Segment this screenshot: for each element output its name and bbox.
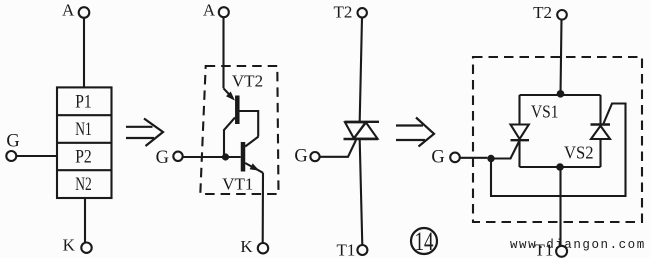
- bridge top wire: [520, 94, 601, 96]
- wire T2 down to bridge: [561, 20, 562, 95]
- terminal K (stack): [63, 236, 92, 255]
- svg-text:A: A: [62, 1, 75, 20]
- svg-text:T2: T2: [334, 3, 353, 22]
- thyristor VS2 (points up): [591, 95, 611, 167]
- svg-text:VS1: VS1: [531, 102, 559, 122]
- wire A to stack: [83, 18, 85, 88]
- wire gate node to VS1 gate: [491, 142, 519, 159]
- wire G to base node: [183, 156, 241, 158]
- svg-text:P2: P2: [75, 147, 92, 168]
- svg-text:A: A: [203, 1, 216, 20]
- terminal A (transistor model): [203, 1, 229, 20]
- svg-text:G: G: [156, 148, 169, 168]
- svg-text:G: G: [6, 131, 19, 151]
- figure number 14 (circled): [411, 226, 437, 256]
- wire bridge to T1: [559, 167, 561, 246]
- svg-text:N2: N2: [75, 174, 92, 195]
- transistor VT2 (PNP): [224, 88, 259, 157]
- wire triac to T1: [360, 140, 363, 245]
- junction node T2/bridge top: [557, 90, 565, 98]
- thyristor VS1 (points down): [511, 95, 530, 167]
- wire stack to K: [84, 198, 86, 243]
- equivalence arrow 1: [126, 119, 163, 147]
- svg-text:T1: T1: [337, 240, 356, 258]
- junction node gate split: [487, 155, 494, 162]
- svg-text:G: G: [294, 147, 307, 167]
- terminal K (transistor model): [240, 237, 268, 256]
- junction node (G / VT2 collector / VT1 base): [222, 153, 229, 160]
- wire G to gate node: [460, 157, 488, 159]
- wire G to stack: [16, 155, 57, 157]
- equivalence arrow 2: [396, 118, 434, 147]
- svg-text:VT2: VT2: [232, 72, 263, 91]
- terminal G (triac): [294, 147, 319, 167]
- svg-text:P1: P1: [75, 91, 92, 112]
- svg-text:VS2: VS2: [564, 142, 594, 162]
- dashed enclosure (transistor model): [200, 66, 278, 194]
- terminal G (two-thyristor model): [431, 148, 459, 168]
- wire gate node to VS2 gate (around bottom): [491, 104, 626, 197]
- transistor VT1 (NPN): [243, 137, 263, 173]
- terminal T2 (triac): [334, 3, 367, 22]
- svg-text:VT1: VT1: [222, 175, 253, 194]
- terminal G (stack): [6, 131, 19, 161]
- wire G to triac gate: [320, 140, 356, 157]
- wire A to VT2 emitter: [222, 17, 224, 88]
- terminal G (transistor model): [156, 148, 183, 168]
- svg-text:N1: N1: [75, 119, 92, 140]
- wire VT1 emitter to K: [262, 173, 264, 243]
- terminal T2 (two-thyristor model): [533, 3, 567, 22]
- terminal T1 (triac): [337, 240, 368, 258]
- svg-text:G: G: [431, 148, 444, 168]
- svg-text:14: 14: [415, 226, 434, 256]
- bridge bottom wire: [520, 166, 601, 168]
- svg-text:www.diangon.com: www.diangon.com: [510, 238, 646, 252]
- junction node bridge bottom / T1: [556, 163, 564, 171]
- wire T2 to triac: [360, 18, 362, 122]
- terminal A (four-layer structure): [62, 1, 89, 20]
- triac VS body: [344, 122, 380, 139]
- svg-text:T2: T2: [533, 3, 552, 22]
- dashed enclosure (two-thyristor model): [473, 57, 642, 222]
- four-layer PNPN stack body: [57, 87, 112, 198]
- svg-text:K: K: [63, 236, 76, 255]
- terminal T1 (two-thyristor model): [535, 240, 568, 258]
- svg-text:K: K: [240, 237, 253, 256]
- svg-text:T1: T1: [535, 240, 554, 258]
